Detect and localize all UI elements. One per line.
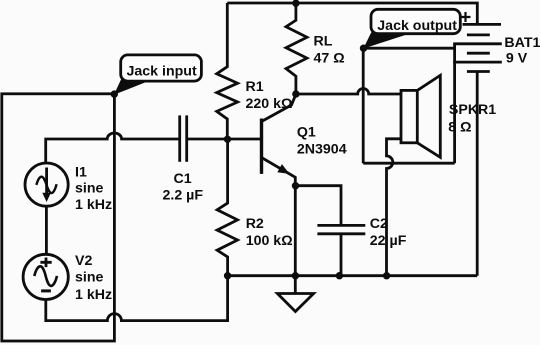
- svg-text:SPKR1: SPKR1: [449, 102, 496, 118]
- svg-text:R2: R2: [246, 216, 264, 232]
- svg-text:C1: C1: [174, 171, 192, 187]
- svg-text:RL: RL: [314, 33, 333, 49]
- svg-text:C2: C2: [370, 216, 388, 232]
- svg-text:1 kHz: 1 kHz: [75, 197, 112, 213]
- svg-text:100 kΩ: 100 kΩ: [246, 233, 293, 249]
- svg-text:I1: I1: [75, 164, 87, 180]
- svg-text:2N3904: 2N3904: [297, 142, 347, 158]
- svg-text:8 Ω: 8 Ω: [448, 119, 471, 135]
- svg-text:220 kΩ: 220 kΩ: [246, 96, 293, 112]
- svg-text:Q1: Q1: [297, 124, 316, 140]
- svg-text:47 Ω: 47 Ω: [314, 50, 345, 66]
- svg-text:9 V: 9 V: [506, 51, 528, 67]
- svg-text:BAT1: BAT1: [504, 35, 540, 51]
- svg-text:Jack input: Jack input: [127, 64, 197, 80]
- svg-text:V2: V2: [75, 253, 92, 269]
- svg-text:2.2 µF: 2.2 µF: [163, 188, 204, 204]
- svg-text:sine: sine: [75, 270, 103, 286]
- svg-text:22 µF: 22 µF: [370, 233, 407, 249]
- svg-text:1 kHz: 1 kHz: [75, 287, 112, 303]
- svg-text:sine: sine: [75, 180, 103, 196]
- svg-text:Jack output: Jack output: [377, 18, 457, 34]
- svg-text:R1: R1: [246, 79, 264, 95]
